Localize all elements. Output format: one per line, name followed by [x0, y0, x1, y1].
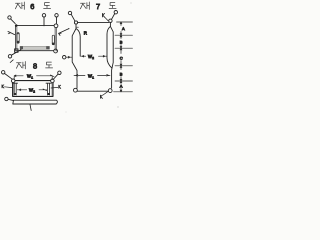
svg-text:A: A [122, 26, 125, 31]
fig7 bottom-right terminal circle [108, 89, 112, 93]
svg-text:B: B [120, 40, 123, 45]
fig6 left electrode capsule [17, 33, 19, 44]
fig7 label K top-right [103, 14, 109, 21]
fig7 label W2 [88, 54, 94, 60]
fig8 label circle top-right [54, 71, 62, 79]
fig8 bottom label circle [5, 97, 14, 100]
fig8 label W2 [29, 88, 35, 94]
svg-text:2: 2 [92, 56, 94, 60]
fig7 top edge [78, 22, 109, 24]
fig7 label circle top-right [112, 11, 118, 20]
fig7 dimension W1 [74, 75, 110, 77]
fig8 corner terminal top-right [51, 79, 55, 83]
fig8 right electrode leader 14 [51, 85, 61, 88]
fig8 left wall band [13, 83, 15, 96]
scan speck 3 [131, 3, 132, 4]
fig8 left electrode leader 14 [2, 85, 12, 88]
fig7 label W1 [88, 74, 94, 80]
fig7 labels A B C B A [120, 26, 125, 89]
fig6 left wall band [15, 25, 17, 50]
fig7 left outer profile [72, 24, 77, 88]
fig8 dimension W2 [17, 89, 46, 91]
figure 8 title 제 8 도 [16, 62, 52, 69]
fig7 left wall tick [76, 26, 78, 28]
fig6 label circle 12 top-mid [42, 14, 45, 26]
fig8 outline rectangle [13, 81, 53, 97]
fig6 terminal circle bottom-right [54, 49, 58, 53]
fig7 terminal circle top-right [109, 19, 112, 22]
fig8 right wall band [51, 83, 53, 96]
fig8 label W1 [27, 74, 33, 80]
fig7 bottom edge [77, 90, 108, 92]
fig7 label circle left-middle [62, 56, 72, 59]
svg-text:C: C [120, 55, 123, 60]
svg-text:1: 1 [92, 76, 94, 80]
fig6 right wall band [55, 28, 57, 51]
fig8 label circle top-left [2, 71, 12, 79]
fig6 left electrode leader 14 [8, 32, 15, 35]
svg-text:R: R [84, 30, 87, 35]
fig6 label circle 13 top-right [55, 14, 58, 24]
figure 8 title tick mark [10, 60, 13, 63]
fig7 terminal circle top-left [74, 21, 77, 24]
fig7 right outer profile [110, 23, 113, 88]
fig6 bottom electrode strip [20, 46, 50, 49]
fig6 bottom label circle 15 [8, 50, 21, 58]
fig6 top-left corner dot [15, 24, 18, 27]
fig8 corner terminal top-left [11, 79, 15, 83]
scan speck 1 [118, 107, 119, 108]
scan speck 2 [65, 111, 68, 114]
svg-text:8: 8 [33, 62, 37, 71]
fig8 base leader below [30, 105, 31, 111]
fig7 label circle top-left [68, 11, 75, 20]
fig6 right electrode capsule [52, 35, 54, 45]
fig7 dimension W2 [80, 55, 107, 57]
fig6 terminal circle top-right [54, 24, 58, 28]
fig8 right electrode bar [46, 83, 51, 95]
figure 7 title 제 7 도 [80, 2, 116, 9]
svg-text:6: 6 [30, 2, 34, 11]
svg-text:7: 7 [96, 2, 100, 11]
svg-text:1: 1 [31, 76, 33, 80]
fig6 right electrode leader [59, 28, 70, 35]
fig6 label circle 11 top-left [8, 16, 15, 24]
svg-text:2: 2 [33, 90, 35, 94]
fig7 right inner shoulder curve [107, 27, 112, 68]
fig7 label K bottom [101, 92, 108, 99]
svg-text:B: B [120, 71, 123, 76]
figure 6 title 제 6 도 [15, 2, 50, 9]
fig8 left electrode bar [12, 83, 17, 95]
fig7 dimension arrows A B C [120, 22, 122, 92]
fig6 outline rectangle [16, 25, 54, 50]
fig7 left inner shoulder curve R [76, 29, 80, 56]
svg-text:A: A [120, 84, 123, 89]
fig7 bottom-left terminal circle [74, 88, 78, 92]
fig7 dimension ticks right [114, 22, 133, 92]
fig8 base plate [13, 100, 58, 104]
fig6 corner square bottom-left [15, 49, 18, 52]
fig8 dimension W1 [14, 75, 54, 80]
